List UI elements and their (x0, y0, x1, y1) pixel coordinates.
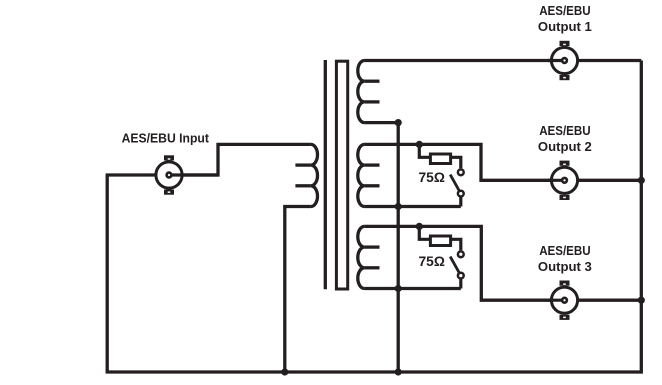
node junction dot Output 3 line / right vertical (638, 297, 645, 304)
wire secondary 3 hot lead to Output 3 line (364, 226, 641, 300)
wire input ground: BNC shell left, down left side to bottom (107, 175, 155, 372)
wire ground bus vertical (397, 123, 400, 372)
wire primary bottom return to ground (285, 207, 311, 373)
transformer core bar (336, 61, 347, 289)
wire S2 bottom lead (459, 279, 462, 289)
svg-text:Output 1: Output 1 (538, 19, 592, 34)
switch S1 arm (450, 175, 461, 194)
wire ground bottom run (106, 370, 642, 373)
BNC connector J3 AES/EBU Output 2 (548, 161, 578, 200)
wire secondary 2 cold lead to bus and switch bottom (364, 205, 460, 208)
BNC connector J4 AES/EBU Output 3 (548, 281, 578, 320)
node junction dot secondary 1 cold / bus (395, 119, 402, 126)
wire S1 bottom lead (459, 197, 462, 207)
transformer T1 secondary winding 3 (358, 226, 365, 288)
resistor R1 body (430, 154, 450, 164)
transformer T1 secondary winding 1 (358, 61, 365, 123)
resistor R2 75 ohm with switch S2 (output 3 termination) (416, 223, 464, 289)
wire secondary 3 cold lead to bus and switch bottom (364, 287, 460, 290)
switch S2 top terminal (458, 251, 464, 257)
wire R1 left lead (419, 144, 430, 157)
resistor R2 body (430, 236, 450, 246)
wire secondary 1 hot lead / Output 1 line (364, 59, 641, 62)
node junction dot Output 2 line / right vertical (638, 177, 645, 184)
wire input BNC center pin to transformer primary top (169, 144, 311, 175)
wire right vertical shield bus (640, 61, 643, 374)
svg-text:Output 2: Output 2 (538, 139, 592, 154)
transformer T1 secondary winding 2 (358, 144, 365, 206)
transformer T1 primary winding (311, 144, 318, 206)
node junction dot bus / bottom ground wire (395, 368, 402, 375)
node junction dot R1 tap on secondary 2 hot lead (416, 141, 423, 148)
svg-text:75Ω: 75Ω (419, 254, 446, 269)
switch S1 top terminal (458, 169, 464, 175)
resistor R1 75 ohm with switch S1 (output 2 termination) (416, 141, 464, 207)
node junction dot R2 tap on secondary 3 hot lead (416, 223, 423, 230)
wire R2 left lead (419, 226, 430, 239)
svg-text:AES/EBU: AES/EBU (539, 243, 590, 258)
wire secondary 1 cold lead to bus (364, 121, 398, 124)
node junction dot secondary 2 cold / bus (395, 203, 402, 210)
svg-text:Output 3: Output 3 (538, 259, 592, 274)
switch S2 arm (450, 257, 461, 276)
wire R1 right lead (451, 157, 461, 168)
svg-text:AES/EBU: AES/EBU (539, 3, 590, 18)
transformer core line (324, 60, 327, 289)
svg-text:AES/EBU: AES/EBU (539, 123, 590, 138)
wire secondary 2 hot lead to Output 2 line (364, 144, 641, 180)
BNC connector J2 AES/EBU Output 1 (548, 41, 578, 80)
svg-text:75Ω: 75Ω (419, 170, 446, 185)
node junction dot secondary 3 cold / bus (395, 285, 402, 292)
BNC connector J1 AES/EBU Input (156, 155, 218, 194)
svg-text:AES/EBU Input: AES/EBU Input (122, 130, 210, 145)
switch S2 bottom terminal (458, 273, 464, 279)
wire R2 right lead (451, 239, 461, 250)
switch S1 bottom terminal (458, 191, 464, 197)
node junction dot primary return / bottom ground wire (281, 368, 288, 375)
